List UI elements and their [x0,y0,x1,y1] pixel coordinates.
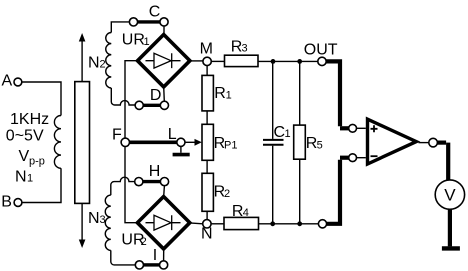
svg-text:1: 1 [144,36,150,48]
svg-text:5: 5 [317,140,323,152]
svg-text:0~5V: 0~5V [6,128,44,145]
svg-text:1: 1 [27,173,33,185]
svg-text:C: C [149,4,161,21]
svg-text:N: N [201,226,213,243]
svg-text:3: 3 [242,43,248,55]
svg-text:UR: UR [122,32,145,49]
svg-text:N: N [15,169,27,186]
svg-text:R: R [214,85,226,102]
svg-text:1: 1 [285,128,291,140]
svg-text:A: A [2,73,13,90]
svg-text:B: B [1,194,12,211]
svg-text:I: I [153,247,157,264]
svg-text:p-p: p-p [29,156,45,168]
svg-text:N: N [88,210,100,227]
svg-text:2: 2 [141,236,147,248]
svg-text:1KHz: 1KHz [10,111,49,128]
svg-text:P1: P1 [224,140,237,152]
svg-text:V: V [444,186,456,205]
svg-text:2: 2 [224,188,230,200]
svg-text:2: 2 [100,58,106,70]
svg-text:N: N [88,54,100,71]
svg-text:M: M [200,40,213,57]
svg-text:C: C [274,124,286,141]
svg-text:V: V [19,148,30,165]
svg-text:4: 4 [243,207,249,219]
svg-text:3: 3 [100,214,106,226]
svg-text:1: 1 [226,90,232,102]
svg-text:H: H [149,163,161,180]
svg-text:OUT: OUT [304,42,338,59]
svg-text:D: D [150,87,162,104]
svg-text:L: L [168,126,177,143]
svg-text:F: F [112,126,122,143]
